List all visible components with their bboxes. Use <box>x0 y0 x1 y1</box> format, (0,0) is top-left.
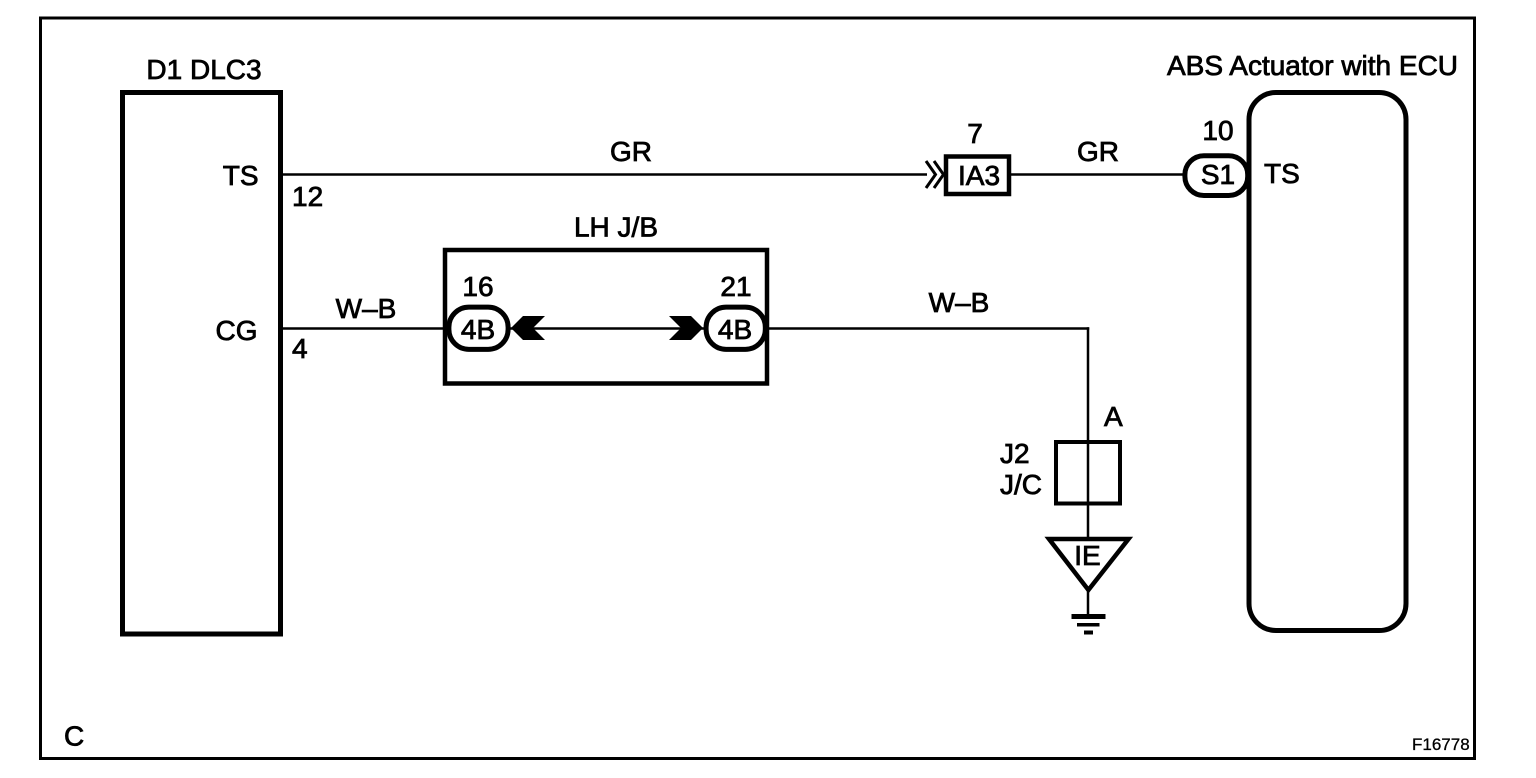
arrow marker right <box>669 316 703 340</box>
svg-text:10: 10 <box>1202 115 1233 146</box>
svg-text:LH J/B: LH J/B <box>574 212 658 243</box>
wire label W-B <box>929 287 990 318</box>
svg-text:TS: TS <box>1264 158 1300 189</box>
svg-text:7: 7 <box>967 118 983 149</box>
chevron splice marker <box>926 161 944 188</box>
arrow marker left <box>511 316 545 340</box>
wire 4B to J2 (W-B) <box>767 327 1089 537</box>
wire label GR <box>1077 136 1119 167</box>
wire TS to IA3 (GR) <box>280 173 927 176</box>
svg-text:W–B: W–B <box>336 293 397 324</box>
node A <box>1104 401 1123 432</box>
svg-text:12: 12 <box>292 181 323 212</box>
svg-text:CG: CG <box>216 315 258 346</box>
wire label W-B <box>336 293 397 324</box>
svg-text:D1 DLC3: D1 DLC3 <box>146 54 261 85</box>
wire label GR <box>610 136 652 167</box>
svg-text:16: 16 <box>462 271 493 302</box>
pin number 4 <box>292 333 308 364</box>
pin TS of DLC3 <box>223 160 259 191</box>
wire inside J/B <box>510 327 704 330</box>
svg-text:GR: GR <box>610 136 652 167</box>
connector 4B pin 21 <box>706 307 765 349</box>
svg-text:IE: IE <box>1074 540 1100 571</box>
svg-text:C: C <box>64 721 84 752</box>
figure label C <box>64 721 84 752</box>
svg-text:F16778: F16778 <box>1412 735 1470 754</box>
wire CG to LH J/B (W-B) <box>280 327 448 330</box>
svg-text:A: A <box>1104 401 1123 432</box>
connector S1 <box>1185 156 1248 196</box>
pin number 12 <box>292 181 323 212</box>
junction block LH J/B <box>445 212 767 384</box>
pin TS of ABS ECU <box>1264 158 1300 189</box>
ground symbol <box>1072 617 1106 633</box>
svg-text:S1: S1 <box>1201 159 1235 190</box>
pin number 21 <box>720 271 751 302</box>
ground triangle IE <box>1049 539 1129 590</box>
figure number F16778 <box>1412 735 1470 754</box>
pin CG of DLC3 <box>216 315 258 346</box>
svg-text:4: 4 <box>292 333 308 364</box>
svg-text:4B: 4B <box>461 314 495 345</box>
connector IA3 <box>946 157 1009 195</box>
connector 4B pin 16 <box>449 307 508 349</box>
pin number 10 <box>1202 115 1233 146</box>
svg-text:IA3: IA3 <box>958 160 1000 191</box>
junction connector J2 J/C <box>1000 438 1120 504</box>
svg-text:4B: 4B <box>718 314 752 345</box>
pin number 7 <box>967 118 983 149</box>
pin number 16 <box>462 271 493 302</box>
ABS Actuator with ECU <box>1167 50 1458 631</box>
wire IA3 to S1 (GR) <box>1011 173 1183 176</box>
svg-text:ABS Actuator with ECU: ABS Actuator with ECU <box>1167 50 1458 81</box>
svg-text:GR: GR <box>1077 136 1119 167</box>
connector D1 DLC3 <box>123 54 281 634</box>
wire to ground <box>1087 592 1090 617</box>
svg-text:J2: J2 <box>1000 438 1030 469</box>
svg-text:21: 21 <box>720 271 751 302</box>
svg-text:W–B: W–B <box>929 287 990 318</box>
svg-text:TS: TS <box>223 160 259 191</box>
svg-text:J/C: J/C <box>1000 469 1042 500</box>
